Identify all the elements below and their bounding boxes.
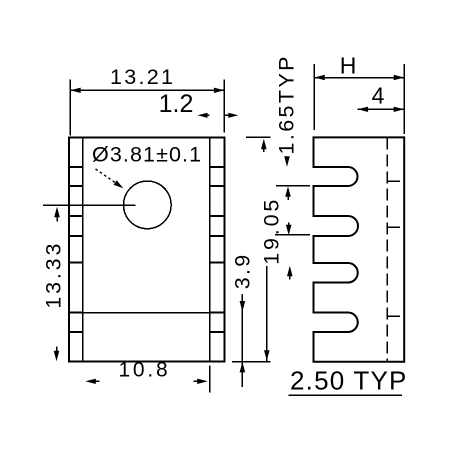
svg-text:19.05: 19.05 — [260, 197, 284, 265]
front view right serration inner line — [209, 137, 211, 361]
right serration notch lines — [209, 167, 226, 332]
note underline — [289, 394, 403, 396]
dim H right arrowhead — [394, 75, 405, 80]
svg-text:1.65TYP: 1.65TYP — [275, 54, 299, 154]
svg-text:1.2: 1.2 — [159, 90, 194, 118]
dim 1.2 left arrow — [198, 113, 208, 118]
dim 10.8 extension line — [209, 366, 211, 393]
bottom edge extension line — [232, 361, 271, 363]
left serration notch lines — [68, 167, 83, 332]
side view outline with fin slots — [314, 137, 405, 361]
dashed line tick 1 — [387, 180, 400, 182]
dashed line tick 2 — [387, 226, 400, 228]
slot2 bottom extension tick — [275, 234, 310, 236]
hole leader arrowhead — [114, 180, 124, 188]
svg-text:10.8: 10.8 — [118, 359, 170, 382]
dim 13.21 dimension line — [70, 89, 224, 91]
svg-text:3.9: 3.9 — [231, 253, 255, 290]
dim 19.05 top extension tick — [246, 136, 271, 138]
svg-text:H: H — [340, 53, 357, 79]
dim 13.21 extension line right — [223, 80, 225, 133]
dim 1.65TYP upper arrowhead — [284, 156, 290, 167]
side view dashed line — [386, 137, 388, 361]
dim 13.21 extension line left — [69, 80, 71, 136]
slot1 bottom extension tick — [276, 185, 310, 187]
dim 19.05 top arrowhead — [261, 139, 267, 150]
dim 13.33 bottom arrowhead — [54, 351, 60, 362]
dim 19.05 dimension line — [266, 266, 268, 361]
dim 13.21 right arrowhead — [214, 88, 225, 93]
dashed line tick 3 — [387, 315, 400, 317]
svg-text:13.21: 13.21 — [110, 65, 175, 89]
inner horizontal line — [83, 312, 210, 314]
dim H extension line left — [313, 64, 315, 130]
dim H extension line right — [403, 64, 405, 134]
dim 4 dimension line — [358, 108, 405, 110]
hole leader dashed line — [96, 169, 120, 185]
dim 19.05 bottom arrowhead — [264, 350, 270, 361]
svg-text:4: 4 — [372, 83, 385, 109]
dim 13.21 left arrowhead — [70, 88, 81, 93]
dim H dimension line — [314, 77, 404, 79]
hole centerline — [43, 204, 136, 206]
dim 3.9 dimension line — [241, 294, 243, 387]
dim 1.65TYP lower arrowhead — [285, 186, 291, 197]
front view body outline — [69, 137, 225, 361]
dim 3.9 upper arrowhead — [240, 301, 246, 312]
fin pitch lower arrowhead — [287, 266, 293, 277]
mounting hole — [124, 181, 172, 229]
dim 10.8 left arrow — [85, 379, 96, 384]
dim 4 left arrowhead — [358, 107, 369, 112]
svg-text:2.50 TYP: 2.50 TYP — [290, 366, 408, 396]
front view left serration inner line — [82, 137, 84, 361]
svg-text:Ø3.81±0.1: Ø3.81±0.1 — [92, 143, 202, 167]
dim 4 right arrowhead — [394, 107, 405, 112]
dim 1.2 right arrow — [228, 113, 238, 118]
svg-text:13.33: 13.33 — [42, 241, 66, 309]
dim 13.33 top arrowhead — [54, 207, 60, 218]
dim 3.9 lower arrowhead — [240, 362, 246, 373]
dim 10.8 right arrow — [197, 379, 208, 384]
dim H left arrowhead — [314, 75, 325, 80]
fin pitch upper arrowhead — [286, 225, 292, 236]
